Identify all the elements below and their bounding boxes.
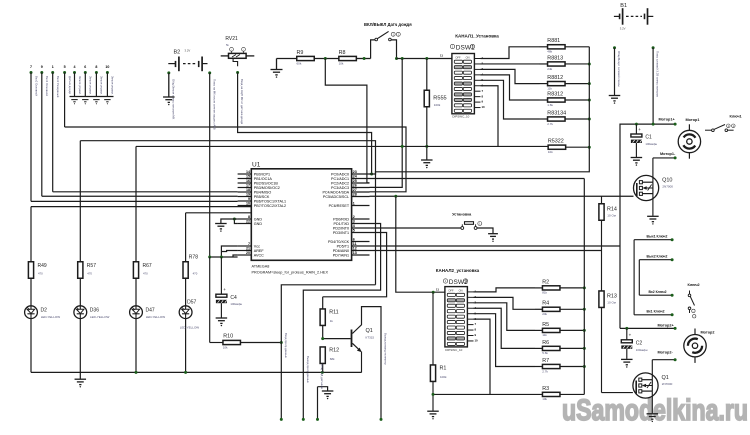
svg-text:4: 4 — [353, 224, 355, 228]
svg-text:11: 11 — [436, 287, 439, 291]
svg-text:Мотор2-: Мотор2- — [658, 351, 674, 355]
svg-text:R555: R555 — [433, 96, 446, 102]
svg-text:Вход прогр данных: Вход прогр данных — [284, 333, 288, 358]
svg-text:100k: 100k — [434, 103, 441, 107]
svg-text:PB6/TOSC1/XTAL1: PB6/TOSC1/XTAL1 — [254, 199, 286, 203]
svg-text:PC6/RESET: PC6/RESET — [329, 204, 350, 208]
svg-text:11: 11 — [353, 242, 357, 246]
svg-text:R78: R78 — [189, 255, 198, 261]
svg-text:ATMEGA8: ATMEGA8 — [252, 265, 270, 269]
svg-text:PB2/SS/OC1B: PB2/SS/OC1B — [254, 181, 279, 185]
svg-text:R13: R13 — [607, 294, 617, 300]
svg-text:C1: C1 — [645, 135, 652, 141]
svg-text:Земля управл.: Земля управл. — [89, 76, 93, 95]
svg-text:Q1: Q1 — [662, 375, 669, 381]
svg-text:4: 4 — [74, 65, 76, 69]
svg-text:OFF: OFF — [455, 55, 461, 59]
svg-text:10: 10 — [475, 339, 479, 343]
svg-text:470: 470 — [143, 272, 148, 276]
svg-text:10k: 10k — [542, 397, 547, 401]
svg-text:PB3/MOSI/OC2: PB3/MOSI/OC2 — [254, 186, 280, 190]
svg-text:ON: ON — [459, 288, 463, 292]
svg-text:R10: R10 — [223, 333, 233, 339]
svg-text:28: 28 — [353, 193, 357, 197]
svg-text:10k: 10k — [223, 345, 228, 349]
svg-text:10 Ом: 10 Ом — [607, 214, 616, 218]
svg-text:R8812: R8812 — [547, 75, 563, 81]
svg-text:PD7/AIN1: PD7/AIN1 — [333, 253, 349, 257]
svg-text:6: 6 — [84, 65, 86, 69]
svg-text:Q10: Q10 — [662, 178, 672, 184]
svg-text:10k: 10k — [339, 61, 344, 65]
svg-text:2.7k: 2.7k — [542, 369, 548, 373]
svg-text:1: 1 — [353, 202, 355, 206]
svg-text:R11: R11 — [329, 310, 339, 316]
svg-text:PD4/T0/XCK: PD4/T0/XCK — [328, 240, 350, 244]
svg-text:3.2V: 3.2V — [620, 27, 626, 31]
svg-text:16: 16 — [246, 179, 250, 183]
svg-text:PB7/TOSC2/XTAL2: PB7/TOSC2/XTAL2 — [254, 204, 286, 208]
svg-text:Выход команд телеметр: Выход команд телеметр — [384, 333, 388, 365]
svg-text:17: 17 — [246, 184, 250, 188]
svg-text:21: 21 — [246, 247, 250, 251]
svg-text:Общ ТХД датчиков: Общ ТХД датчиков — [320, 364, 324, 389]
svg-text:7: 7 — [248, 242, 250, 246]
svg-text:11: 11 — [440, 54, 443, 58]
svg-text:Плюс силовой 3.2В схемы моторо: Плюс силовой 3.2В схемы моторов — [656, 51, 660, 97]
svg-text:13: 13 — [353, 251, 357, 255]
svg-text:R83134: R83134 — [547, 110, 566, 116]
svg-text:10k: 10k — [548, 150, 553, 154]
svg-text:8: 8 — [248, 215, 250, 219]
svg-text:GND: GND — [254, 217, 263, 221]
svg-text:R3: R3 — [542, 386, 549, 392]
svg-text:R12: R12 — [329, 348, 339, 354]
svg-text:OFF: OFF — [448, 288, 454, 292]
svg-text:6: 6 — [353, 238, 355, 242]
svg-text:КАНАЛ2_установка: КАНАЛ2_установка — [436, 268, 480, 273]
svg-text:R67: R67 — [143, 263, 152, 269]
svg-text:R49: R49 — [38, 263, 47, 269]
svg-text:R14: R14 — [607, 207, 617, 213]
svg-text:2N7000: 2N7000 — [662, 382, 673, 386]
svg-text:U1: U1 — [252, 161, 261, 168]
svg-text:100мкфн: 100мкфн — [230, 302, 242, 306]
svg-text:ВКЛ/ВЫКЛ Датч дождя: ВКЛ/ВЫКЛ Датч дождя — [364, 22, 412, 27]
svg-text:КТ315: КТ315 — [366, 336, 375, 340]
svg-text:C2: C2 — [636, 340, 643, 346]
svg-text:3: 3 — [353, 220, 355, 224]
svg-text:D2: D2 — [41, 308, 48, 314]
svg-text:R1: R1 — [440, 366, 447, 372]
svg-text:LED-YELLOW: LED-YELLOW — [146, 315, 166, 319]
svg-text:PD1/TXD: PD1/TXD — [334, 222, 350, 226]
svg-text:11k: 11k — [542, 333, 547, 337]
svg-text:R7: R7 — [542, 358, 549, 364]
svg-text:81k: 81k — [542, 291, 547, 295]
svg-text:R8: R8 — [339, 50, 346, 56]
svg-text:PC0/ADC0: PC0/ADC0 — [331, 172, 349, 176]
svg-text:470: 470 — [38, 272, 43, 276]
svg-text:-: - — [243, 48, 244, 51]
svg-text:14: 14 — [246, 170, 250, 174]
svg-text:Вых2 Ключ2: Вых2 Ключ2 — [647, 255, 668, 259]
svg-text:ON: ON — [466, 55, 470, 59]
svg-text:КАНАЛ1_Установка: КАНАЛ1_Установка — [455, 34, 499, 39]
svg-text:7: 7 — [30, 65, 32, 69]
svg-text:5.6k: 5.6k — [542, 351, 548, 355]
svg-text:2: 2 — [353, 215, 355, 219]
svg-text:PD0/RXD: PD0/RXD — [333, 217, 349, 221]
svg-text:Вх2 Ключ2: Вх2 Ключ2 — [649, 290, 667, 294]
svg-text:Мотор1-: Мотор1- — [660, 152, 676, 156]
svg-text:10: 10 — [246, 202, 250, 206]
svg-text:PC2/ADC2: PC2/ADC2 — [331, 181, 349, 185]
svg-text:R8813: R8813 — [547, 55, 563, 61]
svg-text:23: 23 — [353, 170, 357, 174]
svg-text:8: 8 — [95, 65, 97, 69]
svg-text:19: 19 — [246, 193, 250, 197]
svg-text:AREF: AREF — [254, 249, 265, 253]
svg-text:R9: R9 — [297, 50, 304, 56]
svg-text:Вх1 Ключ2: Вх1 Ключ2 — [647, 310, 665, 314]
svg-text:D36: D36 — [90, 308, 99, 314]
svg-text:60k: 60k — [297, 61, 302, 65]
svg-text:PC1/ADC1: PC1/ADC1 — [331, 177, 349, 181]
svg-text:Земля управл.: Земля управл. — [78, 76, 82, 95]
svg-text:-: - — [694, 315, 695, 318]
svg-text:R5322: R5322 — [548, 139, 564, 145]
svg-text:Датчик дождя: Датчик дождя — [68, 76, 72, 94]
svg-text:48k: 48k — [547, 50, 552, 54]
svg-text:Мотор2: Мотор2 — [701, 331, 715, 335]
svg-text:Мотор1+: Мотор1+ — [659, 117, 676, 121]
svg-text:100мкфн: 100мкфн — [636, 348, 648, 352]
svg-text:PB0/ICP1: PB0/ICP1 — [254, 172, 270, 176]
svg-text:2.7k: 2.7k — [547, 122, 553, 126]
svg-text:9: 9 — [248, 197, 250, 201]
svg-text:25: 25 — [353, 179, 357, 183]
svg-text:68k: 68k — [330, 357, 335, 361]
svg-text:RV21: RV21 — [225, 36, 238, 42]
svg-text:uSamodelkina.ru: uSamodelkina.ru — [562, 394, 748, 427]
svg-text:D57: D57 — [187, 300, 196, 306]
svg-text:+: + — [629, 333, 632, 338]
svg-text:R881: R881 — [547, 38, 560, 44]
svg-text:Выход прогр данных: Выход прогр данных — [306, 356, 310, 383]
svg-text:-: - — [231, 48, 232, 51]
svg-text:R5: R5 — [542, 322, 549, 328]
svg-text:15: 15 — [246, 175, 250, 179]
svg-text:Мотор2+: Мотор2+ — [658, 324, 675, 328]
svg-text:1: 1 — [52, 65, 54, 69]
svg-text:Ключ1: Ключ1 — [730, 114, 742, 118]
svg-text:B2: B2 — [174, 50, 181, 56]
svg-text:Q1: Q1 — [366, 328, 373, 334]
svg-text:D47: D47 — [146, 308, 155, 314]
svg-text:DIPSWC_10: DIPSWC_10 — [452, 115, 469, 119]
svg-text:Плюс на МК после снятия защиты: Плюс на МК после снятия защиты АКБ — [212, 79, 216, 130]
svg-text:GND: GND — [254, 222, 263, 226]
svg-text:2N7000: 2N7000 — [662, 185, 673, 189]
svg-text:R57: R57 — [87, 263, 96, 269]
svg-text:5: 5 — [64, 65, 66, 69]
svg-text:PD5/T1: PD5/T1 — [337, 244, 350, 248]
svg-text:C4: C4 — [230, 295, 237, 301]
svg-text:26: 26 — [353, 184, 357, 188]
svg-text:PC5/ADC5/SCL: PC5/ADC5/SCL — [323, 195, 349, 199]
svg-text:+: + — [638, 127, 641, 132]
svg-text:PC4/ADC4/SDA: PC4/ADC4/SDA — [322, 190, 349, 194]
svg-text:27: 27 — [353, 188, 357, 192]
svg-text:PB5/SCK: PB5/SCK — [254, 195, 270, 199]
svg-text:24k: 24k — [542, 312, 547, 316]
svg-text:PB1/OC1A: PB1/OC1A — [254, 177, 273, 181]
svg-text:100мкфн: 100мкфн — [645, 142, 657, 146]
svg-text:Общ/Минус силовой схемы: Общ/Минус силовой схемы — [617, 51, 621, 87]
svg-text:9: 9 — [41, 65, 43, 69]
svg-text:470: 470 — [193, 272, 198, 276]
svg-text:Ключ2: Ключ2 — [688, 283, 700, 287]
svg-text:Земля управл.: Земля управл. — [111, 76, 115, 95]
svg-text:12: 12 — [353, 247, 357, 251]
svg-text:LED-YELLOW: LED-YELLOW — [41, 315, 61, 319]
svg-text:DIPSWC_10: DIPSWC_10 — [445, 348, 462, 352]
svg-text:Вкл2 Резервный: Вкл2 Резервный — [56, 76, 60, 98]
svg-text:Вых1 Ключ2: Вых1 Ключ2 — [647, 235, 668, 239]
svg-text:PD2/INT0: PD2/INT0 — [333, 226, 349, 230]
svg-text:24k: 24k — [547, 67, 552, 71]
svg-text:5: 5 — [353, 229, 355, 233]
svg-text:R6: R6 — [542, 340, 549, 346]
svg-text:Вход на АЦП МК от датчика дожд: Вход на АЦП МК от датчика дождя — [240, 79, 244, 125]
svg-text:20: 20 — [246, 251, 250, 255]
svg-text:R4: R4 — [542, 301, 549, 307]
svg-text:Мотор1: Мотор1 — [686, 118, 700, 122]
svg-text:1k: 1k — [330, 319, 334, 323]
svg-text:PROGRAM=sleep_for_proteus_RAIN: PROGRAM=sleep_for_proteus_RAIN_2.HEX — [252, 270, 329, 274]
svg-text:22: 22 — [246, 220, 250, 224]
svg-text:3.2V: 3.2V — [185, 49, 191, 53]
svg-text:24: 24 — [353, 175, 357, 179]
svg-text:Вкл2 Основной: Вкл2 Основной — [34, 76, 38, 96]
svg-text:Вкл1 Основной: Вкл1 Основной — [45, 76, 49, 96]
svg-text:11k: 11k — [547, 86, 552, 90]
svg-text:PC3/ADC3: PC3/ADC3 — [331, 186, 349, 190]
svg-text:Vcc: Vcc — [254, 244, 260, 248]
svg-text:LED-YELLOW: LED-YELLOW — [90, 315, 110, 319]
svg-text:PB4/MISO: PB4/MISO — [254, 190, 272, 194]
svg-text:AVCC: AVCC — [254, 253, 264, 257]
svg-text:10 Ом: 10 Ом — [607, 301, 616, 305]
svg-text:100k: 100k — [440, 375, 447, 379]
svg-text:Земля управл.: Земля управл. — [100, 76, 104, 95]
svg-text:B1: B1 — [620, 3, 627, 9]
svg-text:470: 470 — [87, 272, 92, 276]
svg-text:PD3/INT1: PD3/INT1 — [333, 231, 349, 235]
svg-text:10: 10 — [105, 65, 109, 69]
svg-text:1.6k: 1.6k — [547, 103, 553, 107]
svg-text:+: + — [223, 287, 226, 292]
svg-text:Установка: Установка — [452, 213, 472, 217]
svg-text:R8312: R8312 — [547, 91, 563, 97]
svg-text:-: - — [693, 310, 694, 313]
svg-text:PD6/AIN0: PD6/AIN0 — [333, 249, 349, 253]
svg-text:LED-YELLOW: LED-YELLOW — [180, 325, 200, 329]
svg-text:R2: R2 — [542, 279, 549, 285]
svg-text:18: 18 — [246, 188, 250, 192]
svg-text:10: 10 — [482, 105, 486, 109]
